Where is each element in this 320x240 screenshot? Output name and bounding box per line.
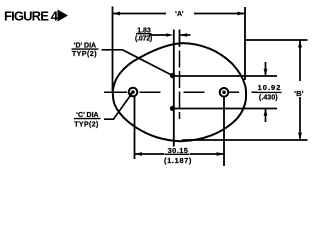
mounting hole right [220, 88, 229, 97]
horizontal centerline dash 4 [229, 91, 240, 93]
dim 10.92 arrow top [265, 62, 267, 76]
dim B extension bottom [182, 139, 308, 141]
svg-text:‘B’: ‘B’ [294, 89, 304, 98]
horizontal centerline dash 2 [140, 91, 161, 93]
vertical centerline solid top (1.83 extension) [179, 30, 181, 48]
dim B extension top [245, 39, 308, 41]
svg-text:‘A’: ‘A’ [175, 11, 184, 18]
dim B line bottom segment [299, 97, 301, 140]
svg-text:(.072): (.072) [135, 36, 152, 43]
label C DIA underline [74, 118, 101, 120]
svg-text:10.92: 10.92 [258, 83, 282, 92]
figure title arrow [58, 10, 69, 22]
dim 1.83 line left with arrow [149, 34, 170, 36]
dim B arrow bottom [298, 133, 302, 141]
dim A arrow right [238, 12, 246, 16]
svg-text:‘D’ DIA: ‘D’ DIA [74, 42, 97, 49]
mounting hole right center dot [222, 91, 226, 95]
dim B arrow top [298, 40, 302, 48]
horizontal centerline dash 3 [184, 91, 205, 93]
vertical pin extension line [173, 30, 175, 147]
pin bottom [170, 106, 175, 111]
mounting hole left [129, 88, 138, 97]
package outline (TO-3 flange) [113, 43, 246, 141]
pin line bottom extension [171, 108, 277, 110]
dim 30.15 arrow right [217, 152, 225, 156]
dim 10.92 fraction bar [257, 91, 282, 93]
dim A arrow left [113, 12, 121, 16]
pin top [170, 73, 175, 78]
horizontal centerline dash 5 [252, 91, 258, 93]
svg-text:FIGURE 4: FIGURE 4 [4, 9, 59, 24]
dim 1.83 fraction bar [136, 33, 152, 35]
dim 30.15 fraction bar [165, 153, 190, 155]
dim A line left segment [113, 13, 167, 15]
dim A extension right [244, 7, 246, 80]
dim 1.83 line right with arrow [180, 34, 191, 36]
dim 30.15 arrow left [135, 152, 143, 156]
svg-text:‘C’ DIA: ‘C’ DIA [76, 112, 99, 119]
svg-text:(.430): (.430) [259, 92, 278, 101]
vertical centerline dashed [179, 51, 181, 120]
dim 30.15 extension left [134, 97, 136, 160]
dim B line top segment [299, 40, 301, 81]
dim 30.15 line left segment [135, 153, 165, 155]
label D DIA underline [72, 48, 99, 50]
svg-text:TYP(2): TYP(2) [72, 51, 97, 58]
svg-text:(1.187): (1.187) [164, 156, 192, 165]
dim A extension left [112, 7, 114, 93]
dim 10.92 arrow bottom [265, 109, 267, 123]
dim 30.15 line right segment [190, 153, 224, 155]
dim 30.15 extension right [223, 97, 225, 166]
leader C DIA arrowhead at hole center [129, 92, 134, 97]
leader D DIA to top pin [102, 50, 173, 76]
pin line top extension [171, 75, 277, 77]
svg-text:TYP(2): TYP(2) [74, 121, 99, 128]
horizontal centerline dash 1 [104, 91, 127, 93]
dim A line right segment [194, 13, 245, 15]
mounting hole left center dot [131, 90, 135, 94]
leader C DIA to left hole [104, 94, 132, 120]
